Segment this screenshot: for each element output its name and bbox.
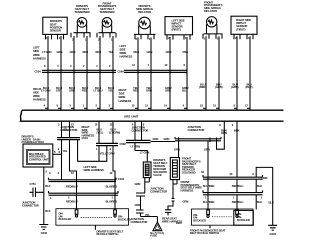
wire fuse box right edge to J1 drop xyxy=(53,150,62,155)
svg-text:BELT BUCKLE SWITCH: BELT BUCKLE SWITCH xyxy=(190,231,219,235)
svg-text:HARNESS: HARNESS xyxy=(119,99,132,103)
junction connector stack lower xyxy=(131,210,158,224)
svg-text:(GRN): (GRN) xyxy=(215,85,223,89)
svg-text:CONNECTOR: CONNECTOR xyxy=(132,128,149,132)
wire J2 drop YEL xyxy=(96,146,105,162)
svg-text:(LT GRN): (LT GRN) xyxy=(109,130,120,134)
wire SRS to J3 left xyxy=(132,121,135,140)
svg-text:TENSIONER: TENSIONER xyxy=(99,10,114,14)
fuse/relay box label xyxy=(22,135,45,145)
connector C504 bar xyxy=(35,69,117,74)
svg-text:RED: RED xyxy=(134,50,140,54)
svg-text:SENSOR: SENSOR xyxy=(50,29,61,33)
wire column 4 (T1 pin1) xyxy=(82,36,88,110)
driver's seat belt buckle switch dashed box xyxy=(56,209,131,226)
harness label floor wire harness (lower left) xyxy=(33,87,46,102)
SRS unit bar xyxy=(20,110,283,121)
svg-text:SRS UNIT: SRS UNIT xyxy=(124,115,139,119)
wire U-link J1 to J2 xyxy=(78,140,107,162)
svg-text:BLK: BLK xyxy=(45,184,50,188)
wire J2 drop LT GRN to buckle switch xyxy=(105,146,115,210)
svg-text:LEFT: LEFT xyxy=(33,45,40,49)
multiplex integrated control unit inner box xyxy=(27,150,51,165)
svg-text:CONNECTOR: CONNECTOR xyxy=(22,203,39,207)
junction connector J3 label xyxy=(132,126,149,133)
svg-text:HARNESS: HARNESS xyxy=(33,57,46,61)
svg-text:GRN: GRN xyxy=(204,148,210,152)
wire column 6 (T2 pin1) xyxy=(108,36,114,110)
svg-text:YEL: YEL xyxy=(109,50,114,54)
svg-text:BLU/RED: BLU/RED xyxy=(203,200,215,204)
svg-text:WIRE: WIRE xyxy=(33,53,40,57)
svg-text:RIGHT: RIGHT xyxy=(33,87,41,91)
svg-text:BLK: BLK xyxy=(234,128,239,132)
wire column 10 (left impact sensor pin1) xyxy=(182,37,189,110)
svg-text:RED: RED xyxy=(82,89,88,93)
wire S2 bottom to right connector xyxy=(168,180,188,225)
svg-text:(FIRST): (FIRST) xyxy=(172,28,181,32)
svg-text:GRN: GRN xyxy=(146,89,152,93)
svg-text:(YEL): (YEL) xyxy=(97,130,104,134)
svg-text:GRN: GRN xyxy=(183,200,189,204)
driver's seat belt tensioner squib T1 xyxy=(71,4,91,37)
svg-text:BUCKLED: BUCKLED xyxy=(193,218,206,222)
svg-text:CONTROL UNIT: CONTROL UNIT xyxy=(29,157,49,161)
svg-text:TENSIONER: TENSIONER xyxy=(74,10,89,14)
driver's seat position sensor box xyxy=(43,17,67,39)
svg-text:G502: G502 xyxy=(41,231,48,235)
svg-text:RIGHT: RIGHT xyxy=(119,88,127,92)
svg-text:ORN: ORN xyxy=(221,131,227,135)
wire labels between bars (driver buckle) xyxy=(66,185,117,204)
wire column 14 (right impact sensor pin1) xyxy=(245,36,253,110)
svg-text:BLK: BLK xyxy=(269,200,274,204)
svg-text:BUCKLED: BUCKLED xyxy=(59,217,72,221)
junction connector J1 label xyxy=(61,125,78,132)
svg-text:INFLATOR: INFLATOR xyxy=(204,9,217,13)
svg-text:BLK: BLK xyxy=(257,184,262,188)
svg-text:LT GRN: LT GRN xyxy=(42,50,52,54)
svg-text:WIRE: WIRE xyxy=(120,51,127,55)
svg-text:LEFT: LEFT xyxy=(120,44,127,48)
svg-text:YEL: YEL xyxy=(145,213,150,217)
wire column 5 (T2 pin2) xyxy=(94,36,103,110)
wire J4 drop to passenger buckle switch xyxy=(204,141,210,211)
harness label front passenger's seat belt wire harness xyxy=(181,180,203,192)
wire hook to ground G504 xyxy=(252,167,274,225)
left side impact sensor box xyxy=(165,17,193,40)
wire fuse box bottom pin to C751 xyxy=(44,167,51,225)
wire column 1 (seat position sensor pin1) xyxy=(41,36,52,110)
svg-text:BLU/RED: BLU/RED xyxy=(203,184,215,188)
wire J1 to buckle switch (driver) xyxy=(70,140,77,210)
svg-text:(RED): (RED) xyxy=(199,85,206,89)
harness label left side wire harness (upper left) xyxy=(33,45,46,60)
svg-text:LT GRN: LT GRN xyxy=(41,89,51,93)
connector C521 bar xyxy=(118,69,188,74)
svg-text:WIRE: WIRE xyxy=(33,94,40,98)
junction connector J3 bar xyxy=(126,140,151,142)
svg-text:CONNECTOR: CONNECTOR xyxy=(150,189,167,193)
svg-text:C564: C564 xyxy=(118,70,125,74)
svg-text:ORN: ORN xyxy=(165,89,171,93)
svg-text:RED: RED xyxy=(96,50,102,54)
svg-text:WIRE: WIRE xyxy=(119,95,126,99)
solenoid S2 front passenger's seat belt tension reducer xyxy=(170,158,179,180)
wires between right bars xyxy=(203,179,262,192)
junction connector J1 bar xyxy=(57,138,80,140)
svg-text:LT GRN: LT GRN xyxy=(105,151,115,155)
wire column 12 (A2 pin1) xyxy=(213,36,223,110)
svg-text:C504: C504 xyxy=(82,136,89,140)
wire column 7 (A1 pin2) xyxy=(132,38,140,111)
svg-text:BUCKLED: BUCKLED xyxy=(118,217,131,221)
harness label right side wire harness (mid lower) xyxy=(119,88,132,103)
svg-text:YEL: YEL xyxy=(63,128,68,132)
svg-text:SOLENOID: SOLENOID xyxy=(182,171,196,175)
svg-text:CONNECTOR: CONNECTOR xyxy=(131,220,148,224)
svg-text:SIDE: SIDE xyxy=(33,91,39,95)
svg-text:GRN: GRN xyxy=(69,89,75,93)
svg-text:PNK: PNK xyxy=(183,50,189,54)
svg-text:WIRE HARNESS: WIRE HARNESS xyxy=(84,168,104,172)
connector bar A1 (C434) xyxy=(49,171,125,181)
wire SRS to J3 right xyxy=(142,121,145,140)
svg-text:GRN: GRN xyxy=(174,148,180,152)
wire J4 drop to solenoid S2 xyxy=(174,141,180,158)
wire SRS BLK down right column xyxy=(230,121,240,177)
wire SRS to J2 left (BLU/YEL) xyxy=(95,121,104,143)
svg-text:C751: C751 xyxy=(30,182,37,186)
svg-text:RED/BLU: RED/BLU xyxy=(66,199,78,203)
svg-text:RED: RED xyxy=(133,89,139,93)
connector bar B2 xyxy=(203,190,263,199)
svg-text:RED: RED xyxy=(83,50,89,54)
svg-text:GRN: GRN xyxy=(147,50,153,54)
wire SRS BLK/ORN hook into J4 xyxy=(217,121,228,149)
ground G504 xyxy=(268,225,277,236)
svg-text:BLU: BLU xyxy=(182,89,187,93)
svg-text:HARNESS: HARNESS xyxy=(181,188,194,192)
junction connector J4 bar xyxy=(175,139,221,141)
wire column 3 (T1 pin2) xyxy=(69,36,75,110)
wire column 2 (seat position sensor pin2) xyxy=(56,36,62,110)
svg-text:INFLATOR: INFLATOR xyxy=(138,10,151,14)
svg-text:BUCKLE SWITCH: BUCKLE SWITCH xyxy=(97,232,119,236)
wire SRS pin to J1 right xyxy=(70,121,75,137)
wire GRN link J3 to J4 xyxy=(151,137,176,142)
svg-text:GRN: GRN xyxy=(164,137,170,141)
svg-text:SIDE: SIDE xyxy=(119,92,125,96)
svg-text:GRN: GRN xyxy=(135,203,141,207)
svg-text:LT GRN: LT GRN xyxy=(140,151,150,155)
svg-text:FUSE: FUSE xyxy=(150,234,157,238)
svg-text:C582: C582 xyxy=(120,142,127,146)
svg-text:RED/BLU: RED/BLU xyxy=(66,185,78,189)
svg-text:GRN: GRN xyxy=(57,50,63,54)
wire J3 to solenoid S1 xyxy=(131,143,150,162)
solenoid S1 label xyxy=(153,158,167,177)
front passenger's buckle switch label xyxy=(190,226,226,236)
wire column 13 (right impact sensor pin2) xyxy=(231,36,239,110)
front passenger's seat belt buckle switch dashed box xyxy=(192,209,254,225)
wire column 8 (A1 pin1) xyxy=(145,38,152,111)
front passenger's side airbag inflator A2 xyxy=(203,0,223,38)
svg-text:YEL: YEL xyxy=(63,149,68,153)
driver's under-dash fuse/relay box xyxy=(23,144,53,167)
svg-text:LT BLU: LT BLU xyxy=(94,89,103,93)
junction connector C751 xyxy=(22,182,44,207)
junction connector stack upper xyxy=(135,187,168,211)
svg-text:RED/BLU: RED/BLU xyxy=(232,184,244,188)
svg-text:BLK: BLK xyxy=(257,200,262,204)
svg-text:SIDE: SIDE xyxy=(120,47,126,51)
svg-text:GRY: GRY xyxy=(56,89,62,93)
svg-text:BLU/RED: BLU/RED xyxy=(106,185,118,189)
svg-text:C434: C434 xyxy=(118,177,125,181)
driver's seat belt buckle switch label xyxy=(95,225,123,236)
wire column 9 (left impact sensor pin2) xyxy=(164,37,172,110)
svg-text:(BLK): (BLK) xyxy=(246,85,253,89)
svg-text:(GRN): (GRN) xyxy=(231,85,239,89)
svg-text:YEL: YEL xyxy=(108,89,113,93)
svg-text:GRN: GRN xyxy=(135,182,141,186)
svg-text:BLK: BLK xyxy=(45,209,50,213)
wire J1 to fuse box junction xyxy=(58,140,68,180)
wire column 11 (A2 pin2) xyxy=(199,36,206,110)
harness label right side wire harness C504 (below SRS) xyxy=(82,125,95,140)
svg-text:LT GRN: LT GRN xyxy=(131,145,141,149)
connector bar B1 xyxy=(49,191,119,200)
svg-text:RED/BLU: RED/BLU xyxy=(232,200,244,204)
junction connector J4 label xyxy=(188,125,205,132)
right side impact sensor box xyxy=(231,16,257,39)
solenoid S1 driver's seat belt tension reducer xyxy=(143,162,151,178)
connector bar A2 (C458) xyxy=(201,170,263,179)
svg-text:WIRE HARNESS: WIRE HARNESS xyxy=(162,219,182,223)
wire SRS to J2 right (BLU/LT GRN) xyxy=(109,121,120,143)
svg-text:GRN: GRN xyxy=(70,50,76,54)
svg-text:G504: G504 xyxy=(270,232,277,236)
svg-text:GRN: GRN xyxy=(153,137,159,141)
svg-text:SIDE: SIDE xyxy=(33,49,39,53)
wires into passenger buckle switch xyxy=(203,195,262,211)
svg-text:BLU/RED: BLU/RED xyxy=(106,199,118,203)
driver's side airbag inflator A1 xyxy=(134,4,156,39)
junction connector J2 (C582) xyxy=(96,142,126,146)
front passenger's seat belt tensioner squib T2 xyxy=(97,1,116,37)
wires S1 bottom to junction stack xyxy=(135,178,150,193)
svg-text:HARNESS: HARNESS xyxy=(120,55,133,59)
svg-text:VALVE: VALVE xyxy=(153,173,162,177)
solenoid S2 label xyxy=(182,157,201,175)
svg-text:(FIRST): (FIRST) xyxy=(236,27,245,31)
svg-text:GRN: GRN xyxy=(166,50,172,54)
svg-text:HARNESS: HARNESS xyxy=(33,98,46,102)
right mini junction connector xyxy=(162,210,182,224)
ground G502 xyxy=(39,225,48,236)
harness label left side wire harness (mid upper) xyxy=(120,44,133,59)
svg-text:BUCKLED: BUCKLED xyxy=(237,218,250,222)
svg-text:CONNECTOR: CONNECTOR xyxy=(188,128,205,132)
fuse triangle symbol xyxy=(150,222,164,238)
harness label left side wire harness (mid bottom) xyxy=(84,165,104,172)
wire SRS pin to J1 left xyxy=(58,121,68,137)
svg-text:C504: C504 xyxy=(35,70,42,74)
